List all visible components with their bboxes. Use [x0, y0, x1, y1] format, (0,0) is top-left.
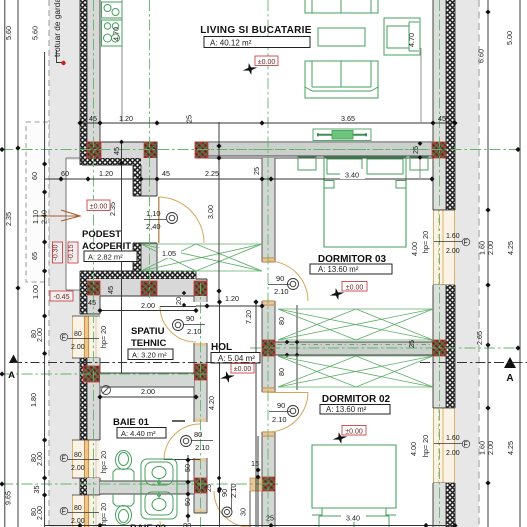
sofa top living: [305, 0, 378, 13]
svg-text:80: 80: [74, 331, 82, 338]
pillar at podest NE corner: [144, 142, 157, 158]
dimension boundary lines left: [5, 0, 45, 527]
level box stair -0.30 rotated: [53, 242, 63, 263]
svg-text:F: F: [464, 240, 468, 247]
wall: west exterior wall, segment below spatiu window: [80, 358, 100, 440]
svg-text:4.70: 4.70: [407, 33, 416, 47]
floor drain spatiu west: [102, 386, 111, 395]
wall: baie separator y481-494: [100, 478, 262, 494]
toilet baie01: [113, 451, 134, 482]
svg-text:SPATIU: SPATIU: [131, 326, 165, 337]
dimension line hol passage: [196, 305, 262, 307]
svg-text:45: 45: [106, 286, 115, 294]
svg-text:2.00: 2.00: [141, 301, 155, 310]
door label dormitor03: [268, 274, 299, 296]
wall: podest east wall upper part: [133, 142, 157, 196]
svg-text:45: 45: [162, 169, 170, 178]
svg-text:A: 5.04 m²: A: 5.04 m²: [218, 354, 255, 363]
pillar west end spatiu wall: [83, 281, 100, 295]
axis vertical x268: [267, 0, 269, 527]
room label baie02 clipped: [130, 521, 191, 527]
svg-text:1.05: 1.05: [162, 249, 176, 258]
wall: podest east wall lower part: [133, 243, 157, 271]
dimension line hol total x256: [255, 302, 257, 527]
svg-text:DORMITOR 03: DORMITOR 03: [318, 254, 387, 265]
svg-text:2.00: 2.00: [486, 241, 495, 255]
pillar east wall at dorm separator: [432, 340, 446, 356]
svg-text:2.00: 2.00: [35, 452, 44, 466]
svg-text:hp= 20: hp= 20: [99, 451, 108, 473]
svg-text:80: 80: [194, 430, 202, 439]
svg-text:A: 3.20 m²: A: 3.20 m²: [132, 351, 167, 360]
svg-text:90: 90: [276, 274, 284, 283]
room label baie01: [113, 417, 185, 438]
svg-text:45: 45: [88, 298, 96, 307]
svg-text:2.00: 2.00: [71, 465, 85, 472]
svg-text:4.70: 4.70: [112, 27, 121, 41]
door label spatiu: [173, 314, 206, 336]
svg-text:60: 60: [30, 172, 39, 180]
window west W-L3 (baie02): [72, 495, 100, 527]
kitchen sink: [102, 2, 123, 18]
pillar at west wall / podest wall: [87, 142, 101, 158]
dim text 3.40 dorm02: [341, 512, 366, 523]
bed dormitor02: [312, 445, 396, 527]
svg-text:-0.45: -0.45: [54, 294, 70, 301]
svg-text:5.60: 5.60: [31, 26, 40, 40]
door arc podest entrance: [158, 197, 204, 243]
svg-text:A: A: [8, 370, 15, 381]
exterior stair arrow: [38, 210, 80, 221]
svg-text:80: 80: [74, 505, 82, 512]
svg-text:2.00: 2.00: [35, 328, 44, 342]
wall: west exterior wall, spatiu segment: [80, 271, 100, 314]
svg-text:BAIE 02: BAIE 02: [130, 523, 166, 527]
svg-text:80: 80: [277, 317, 286, 325]
svg-text:2.00: 2.00: [71, 518, 85, 525]
door label baie02 rotated: [220, 483, 238, 517]
svg-text:2.10: 2.10: [274, 287, 289, 296]
radiator living: [313, 129, 371, 141]
kitchen hob: [102, 20, 123, 46]
section marker right: [420, 357, 527, 384]
level star hol: [219, 370, 236, 385]
svg-text:1.60: 1.60: [446, 233, 460, 240]
level box dormitor03: [342, 282, 367, 292]
svg-text:2.00: 2.00: [141, 387, 155, 396]
dimension line bottom chain: [45, 525, 455, 527]
svg-text:A: 4.40 m²: A: 4.40 m²: [121, 429, 156, 438]
dimension line washbasin x188: [187, 455, 189, 522]
svg-text:-0.30: -0.30: [53, 244, 60, 260]
svg-text:±0.00: ±0.00: [234, 366, 252, 373]
level box living: [255, 56, 278, 66]
svg-text:2.10: 2.10: [187, 327, 202, 336]
svg-text:30: 30: [239, 508, 248, 516]
door label dormitor02: [269, 401, 299, 424]
svg-text:±0.00: ±0.00: [258, 59, 276, 66]
window west W-L2 (baie01): [72, 440, 100, 478]
svg-text:HOL: HOL: [211, 342, 232, 353]
dim text 1.05 canopy: [158, 248, 181, 258]
living east furniture line: [420, 48, 421, 178]
room label living: [200, 25, 311, 48]
pillar west end dorm separator: [262, 340, 275, 356]
level star dormitor03: [328, 287, 345, 302]
level box stair -0.15 rotated: [68, 242, 78, 263]
axis horizontal y374: [2, 373, 207, 375]
door arc baie02 second leaf bottom: [160, 521, 178, 527]
pillar wall A at baie wall junction: [194, 364, 207, 380]
svg-text:25: 25: [204, 484, 213, 492]
svg-text:DORMITOR 02: DORMITOR 02: [322, 394, 391, 405]
svg-text:90: 90: [186, 314, 194, 323]
dimension line baie01 width: [100, 396, 196, 398]
svg-text:5.60: 5.60: [4, 26, 13, 40]
svg-text:±0.00: ±0.00: [90, 203, 108, 210]
svg-text:A: 13.60 m²: A: 13.60 m²: [318, 265, 359, 274]
svg-text:45: 45: [438, 114, 446, 123]
svg-text:hp= 20: hp= 20: [99, 326, 108, 348]
svg-text:1.60: 1.60: [446, 435, 460, 442]
svg-text:2.00: 2.00: [446, 450, 460, 457]
svg-text:25: 25: [185, 115, 194, 123]
svg-text:LIVING SI BUCATARIE: LIVING SI BUCATARIE: [200, 25, 311, 36]
wall: spatiu/baie01 separator y373-387: [100, 373, 194, 387]
svg-text:BAIE 01: BAIE 01: [113, 417, 150, 428]
window label east dorm03: [434, 233, 470, 255]
svg-text:50: 50: [183, 464, 192, 472]
svg-text:F: F: [62, 509, 66, 516]
svg-text:2.00: 2.00: [446, 248, 460, 255]
exterior stair dashed outline: [26, 122, 49, 282]
level star living: [241, 62, 258, 77]
svg-text:2.25: 2.25: [205, 169, 219, 178]
svg-text:hp= 20: hp= 20: [99, 503, 108, 525]
room label dormitor03: [310, 254, 392, 274]
wall: spatiu tehnic north wall (y271-296): [80, 271, 207, 296]
dimension line living top chain: [80, 122, 455, 124]
dimension line podest width chain: [45, 178, 432, 180]
room label spatiu tehnic: [128, 326, 173, 360]
svg-text:2,40: 2,40: [146, 222, 161, 231]
svg-text:A: A: [506, 373, 513, 384]
door arc dormitor02: [268, 392, 308, 432]
svg-text:2.35: 2.35: [4, 212, 13, 226]
wall: podest north wall (horizontal y142-158): [82, 142, 157, 165]
window east W-R2 (dormitor02): [433, 408, 455, 483]
sidewalk left band: [49, 0, 80, 527]
dimension line living height x219: [218, 122, 220, 302]
level box hol: [231, 364, 254, 374]
axis horizontal y487.5: [2, 483, 278, 485]
level star dormitor02: [331, 431, 348, 446]
toilet baie02: [113, 494, 134, 525]
svg-text:4.25: 4.25: [506, 441, 515, 455]
sofa main living: [305, 61, 378, 98]
svg-text:4.20: 4.20: [207, 396, 216, 410]
svg-text:2.10: 2.10: [272, 415, 287, 424]
pillar on west wall at baie01 wall junction: [83, 366, 100, 382]
beam dim line x297: [296, 305, 298, 390]
svg-text:6.60: 6.60: [477, 49, 486, 63]
svg-text:45: 45: [112, 147, 121, 155]
svg-text:50: 50: [183, 498, 192, 506]
door arc spatiu tehnic: [160, 306, 196, 342]
svg-text:80: 80: [183, 521, 191, 527]
svg-text:35: 35: [32, 486, 41, 494]
beam cross bracing dormitor03: [278, 309, 433, 340]
svg-text:A: 2.82 m²: A: 2.82 m²: [88, 253, 123, 262]
section marker left: [8, 355, 260, 382]
svg-text:3.65: 3.65: [341, 114, 355, 123]
svg-text:90: 90: [220, 489, 229, 497]
svg-text:TEHNIC: TEHNIC: [131, 338, 167, 349]
svg-text:hp= 20: hp= 20: [421, 435, 430, 457]
svg-text:±0.00: ±0.00: [345, 428, 363, 435]
room label podest: [82, 229, 137, 262]
axis vertical x200.5: [200, 283, 202, 527]
svg-text:25: 25: [411, 146, 420, 154]
svg-text:25: 25: [407, 340, 416, 348]
window east W-R1 (dormitor03): [433, 210, 455, 285]
svg-text:7.20: 7.20: [244, 310, 253, 324]
window west W-L1 (spatiu tehnic): [72, 316, 100, 358]
pillar east end living partition: [432, 142, 446, 158]
axis horizontal y348: [250, 347, 520, 349]
svg-text:4.25: 4.25: [506, 241, 515, 255]
svg-text:-0.15: -0.15: [68, 244, 75, 260]
window label west baie01: [60, 452, 99, 472]
dimension boundary lines right: [488, 0, 520, 527]
wall: west pier between bathroom windows: [80, 478, 100, 495]
kitchen counter edge: [121, 0, 123, 122]
wall A: hol west wall x194-207: [194, 296, 207, 513]
svg-text:2.10: 2.10: [229, 483, 238, 498]
room label dormitor02: [320, 394, 391, 414]
svg-text:3.00: 3.00: [206, 205, 215, 219]
svg-text:60: 60: [61, 169, 69, 178]
washbasin baie02: [145, 492, 173, 515]
pillar mid spatiu wall: [141, 281, 157, 295]
svg-text:4.00: 4.00: [409, 442, 418, 456]
door label podest entrance: [144, 209, 178, 231]
dimension line pier15 x258: [257, 436, 259, 527]
svg-text:2.10: 2.10: [195, 443, 210, 452]
level box dormitor02: [342, 426, 366, 436]
svg-text:1.00: 1.00: [31, 285, 40, 299]
wall: east exterior wall top segment: [433, 0, 455, 210]
wall: dormitor separator (y342-355): [275, 342, 432, 355]
svg-text:1.80: 1.80: [29, 393, 38, 407]
svg-text:F: F: [62, 456, 66, 463]
dimension texts left chains rotated: [4, 26, 49, 520]
sidewalk label trotuar: [52, 0, 66, 65]
axis horizontal y149.5: [2, 149, 520, 151]
svg-text:3.40: 3.40: [345, 171, 359, 180]
svg-text:80: 80: [74, 452, 82, 459]
nightstand dormitor03 left: [298, 157, 316, 170]
door arc baie01: [164, 424, 200, 460]
wall: east exterior wall bottom segment: [433, 483, 455, 527]
wall: living/dormitor03 partition (y142-158): [196, 142, 446, 158]
svg-text:2.00: 2.00: [71, 344, 85, 351]
pillar wall A at baie separator: [194, 478, 207, 493]
washbasin counter baie: [141, 459, 177, 519]
beam cross bracing dormitor02: [278, 356, 433, 387]
sidewalk right band: [455, 0, 479, 527]
svg-text:A: 40.12 m²: A: 40.12 m²: [210, 39, 252, 48]
svg-text:2.65: 2.65: [475, 331, 484, 345]
level box sidewalk -0.45: [50, 291, 73, 301]
svg-text:±0.00: ±0.00: [346, 284, 364, 291]
level box podest: [87, 200, 110, 211]
svg-text:80: 80: [277, 368, 286, 376]
dimension texts horizontal: [61, 27, 446, 525]
svg-text:20: 20: [174, 297, 183, 305]
svg-text:1.20: 1.20: [119, 114, 133, 123]
svg-text:2.40: 2.40: [40, 210, 49, 224]
svg-text:F: F: [464, 442, 468, 449]
svg-text:5.00: 5.00: [505, 31, 514, 45]
svg-text:3.40: 3.40: [346, 514, 360, 523]
svg-text:90: 90: [277, 401, 285, 410]
svg-text:45: 45: [89, 114, 97, 123]
nightstand dormitor03 right: [410, 157, 428, 170]
svg-text:25: 25: [266, 514, 274, 523]
dimension line hol length x224: [219, 302, 221, 527]
pillar west end living partition: [195, 142, 208, 158]
door label baie01: [181, 430, 214, 452]
room label hol: [211, 342, 260, 363]
bed dormitor03 pillows: [324, 157, 406, 180]
window label east dorm02: [434, 435, 470, 457]
svg-text:1.20: 1.20: [99, 169, 113, 178]
armchair living: [384, 18, 420, 55]
door arc baie02: [214, 491, 250, 527]
axis vertical x93.5: [93, 0, 95, 527]
bed dormitor03 body: [324, 180, 406, 247]
svg-text:ACOPERIT: ACOPERIT: [82, 241, 131, 252]
dim text 3.40 dorm03: [340, 169, 365, 180]
svg-text:2.00: 2.00: [35, 506, 44, 520]
svg-text:F: F: [62, 335, 66, 342]
wall: west exterior wall upper segment: [80, 0, 100, 165]
canopy cross brace above spatiu wall: [141, 244, 262, 271]
svg-text:4.00: 4.00: [410, 242, 419, 256]
door arc dormitor03: [268, 261, 308, 301]
svg-text:1.20: 1.20: [225, 294, 239, 303]
svg-text:1,10: 1,10: [146, 209, 161, 218]
svg-text:65: 65: [30, 252, 39, 260]
window label west spatiu: [60, 331, 99, 351]
dimension line podest height x121.5: [121, 142, 123, 373]
svg-text:hp= 20: hp= 20: [421, 231, 430, 253]
svg-text:9.65: 9.65: [4, 491, 13, 505]
svg-text:trotuar de garda: trotuar de garda: [52, 0, 62, 57]
dimension line spatiu width: [100, 310, 196, 312]
svg-text:2.00: 2.00: [486, 441, 495, 455]
axis vertical x439.5: [439, 0, 441, 527]
svg-text:25: 25: [252, 167, 261, 175]
podest outline: [66, 158, 80, 290]
pillar wall B at baie02 wall: [262, 477, 275, 491]
wall B: dormitor west wall x262-275: [262, 158, 275, 527]
window label west baie02: [60, 505, 99, 525]
axis vertical x149.5: [149, 0, 151, 298]
wall: east exterior wall mid segment: [433, 285, 455, 408]
svg-text:A: 13.60 m²: A: 13.60 m²: [326, 405, 367, 414]
svg-text:PODEST: PODEST: [82, 229, 121, 240]
dimension texts right chains rotated: [475, 31, 515, 455]
svg-text:15: 15: [251, 459, 259, 468]
pillar east end spatiu wall (hol corner): [194, 281, 207, 296]
coffee table living: [318, 28, 365, 46]
washbasin baie01: [145, 462, 173, 485]
